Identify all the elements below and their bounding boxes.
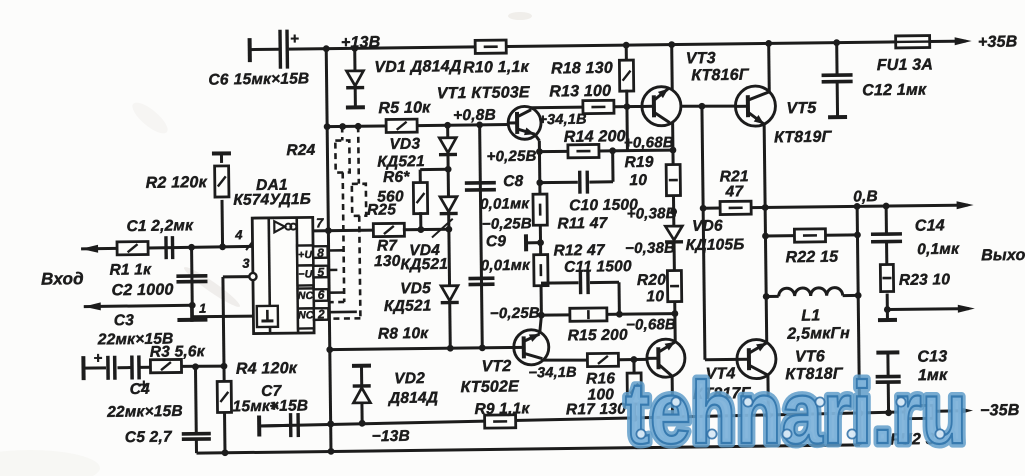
svg-text:15мк×15В: 15мк×15В <box>233 397 309 415</box>
svg-text:R23 10: R23 10 <box>899 271 951 289</box>
svg-text:47: 47 <box>725 183 745 200</box>
svg-text:−35В: −35В <box>980 402 1020 419</box>
svg-text:КТ816Г: КТ816Г <box>691 67 750 85</box>
svg-text:КД521: КД521 <box>384 297 432 315</box>
svg-text:22мк×15В: 22мк×15В <box>106 403 183 421</box>
svg-text:−13В: −13В <box>372 428 410 445</box>
svg-text:КТ502Е: КТ502Е <box>460 378 520 396</box>
svg-text:R10 1,1к: R10 1,1к <box>463 59 530 77</box>
svg-text:VD6: VD6 <box>692 217 723 234</box>
svg-text:+35В: +35В <box>978 33 1018 50</box>
svg-text:Д814Д: Д814Д <box>387 389 438 407</box>
svg-text:15мк×15В: 15мк×15В <box>234 70 310 88</box>
svg-text:NC: NC <box>298 309 314 321</box>
svg-text:R24: R24 <box>286 142 315 159</box>
svg-text:L1: L1 <box>801 307 820 324</box>
svg-text:С6: С6 <box>208 71 229 88</box>
svg-text:2,5мкГн: 2,5мкГн <box>786 325 850 343</box>
svg-text:+U: +U <box>298 249 312 261</box>
svg-text:7: 7 <box>316 215 324 230</box>
svg-text:0,01мк: 0,01мк <box>480 195 530 213</box>
svg-text:1: 1 <box>199 301 207 316</box>
svg-text:R3 5,6к: R3 5,6к <box>150 343 206 361</box>
svg-text:−U: −U <box>298 268 312 280</box>
svg-text:С5 2,7: С5 2,7 <box>125 429 173 447</box>
svg-text:8: 8 <box>317 246 324 260</box>
svg-text:С1 2,2мк: С1 2,2мк <box>126 217 194 235</box>
svg-text:С2 1000: С2 1000 <box>112 282 174 300</box>
svg-text:10: 10 <box>629 172 647 189</box>
svg-text:R2 120к: R2 120к <box>146 174 208 192</box>
svg-text:R19: R19 <box>624 154 653 171</box>
svg-text:FU1 3А: FU1 3А <box>877 56 934 74</box>
svg-text:КД105Б: КД105Б <box>686 236 745 254</box>
svg-text:+13В: +13В <box>341 34 381 51</box>
svg-text:VT1 КТ503Е: VT1 КТ503Е <box>437 84 531 102</box>
svg-text:+: + <box>93 350 102 367</box>
svg-text:2: 2 <box>317 307 325 321</box>
svg-text:С4: С4 <box>130 381 151 398</box>
svg-text:R4 120к: R4 120к <box>236 360 298 378</box>
svg-text:130: 130 <box>374 253 401 270</box>
svg-text:R18 130: R18 130 <box>551 60 613 78</box>
svg-text:−34,1В: −34,1В <box>528 365 577 382</box>
svg-text:+: + <box>290 31 299 48</box>
svg-text:−0,25В: −0,25В <box>482 215 532 233</box>
svg-text:R9 1,1к: R9 1,1к <box>474 400 530 418</box>
svg-text:VD1 Д814Д: VD1 Д814Д <box>374 58 462 76</box>
svg-text:10: 10 <box>646 288 664 305</box>
svg-text:К574УД1Б: К574УД1Б <box>233 191 311 209</box>
svg-text:С11 1500: С11 1500 <box>564 258 632 276</box>
svg-text:R17 130: R17 130 <box>566 401 626 419</box>
svg-text:С14: С14 <box>915 217 945 234</box>
svg-text:+34,1В: +34,1В <box>538 112 587 129</box>
svg-text:R15 200: R15 200 <box>568 327 628 345</box>
svg-text:КД521: КД521 <box>400 256 448 274</box>
svg-text:VD3: VD3 <box>389 136 420 153</box>
svg-text:R20: R20 <box>637 272 666 289</box>
svg-text:Выход: Выход <box>981 247 1025 265</box>
svg-text:3: 3 <box>242 256 250 271</box>
svg-text:R25: R25 <box>367 201 396 218</box>
svg-text:R11 47: R11 47 <box>557 215 608 233</box>
svg-text:0,01мк: 0,01мк <box>481 257 531 275</box>
svg-text:+0,8В: +0,8В <box>453 107 496 125</box>
svg-text:R16: R16 <box>586 370 615 387</box>
svg-text:R12 47: R12 47 <box>553 242 606 260</box>
svg-text:5: 5 <box>317 265 324 279</box>
svg-text:R1 1к: R1 1к <box>109 261 152 279</box>
svg-text:+0,68В: +0,68В <box>624 134 674 152</box>
svg-text:R14 200: R14 200 <box>564 128 626 146</box>
svg-text:R22 15: R22 15 <box>785 249 839 267</box>
svg-text:tehnari.ru: tehnari.ru <box>625 363 967 462</box>
svg-text:−0,68В: −0,68В <box>626 316 676 334</box>
svg-text:С12 1мк: С12 1мк <box>862 82 927 100</box>
svg-text:VT2: VT2 <box>481 358 511 375</box>
svg-text:Вход: Вход <box>41 269 84 289</box>
svg-text:0,1мк: 0,1мк <box>917 241 960 259</box>
svg-text:VD2: VD2 <box>394 370 425 387</box>
svg-text:С9: С9 <box>486 233 507 250</box>
svg-text:−0,25В: −0,25В <box>490 305 540 323</box>
svg-text:R6*: R6* <box>383 169 410 186</box>
svg-text:VD5: VD5 <box>400 280 431 297</box>
svg-text:R5 10к: R5 10к <box>378 99 431 117</box>
svg-text:0,В: 0,В <box>853 188 878 205</box>
svg-text:−0,38В: −0,38В <box>625 240 675 258</box>
svg-text:КТ819Г: КТ819Г <box>774 129 833 147</box>
svg-text:6: 6 <box>318 288 325 302</box>
svg-text:+0,38В: +0,38В <box>627 205 677 223</box>
svg-text:R13 100: R13 100 <box>549 83 611 101</box>
svg-text:4: 4 <box>234 227 243 242</box>
svg-text:С8: С8 <box>503 173 524 190</box>
svg-text:VT5: VT5 <box>786 100 817 117</box>
svg-text:С3: С3 <box>114 312 135 329</box>
svg-text:VT3: VT3 <box>686 50 716 67</box>
svg-text:R8 10к: R8 10к <box>378 325 430 343</box>
svg-text:+0,25В: +0,25В <box>487 148 537 166</box>
svg-text:NC: NC <box>298 290 314 302</box>
